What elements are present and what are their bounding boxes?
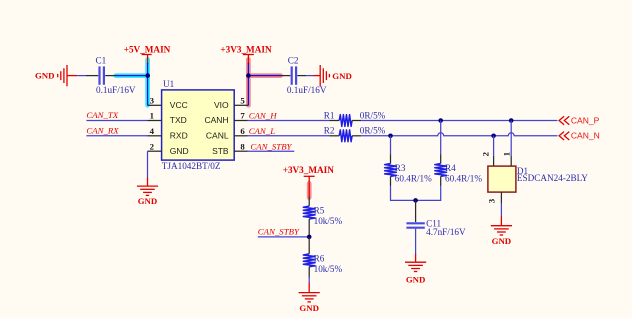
wire R2 to CAN_N port (with hops over R4 and D1 pin 1 columns) [361,133,557,136]
svg-text:+3V3_MAIN: +3V3_MAIN [220,44,272,54]
junction CAN_STBY node [307,235,312,240]
power port GND (below D1) [491,216,512,246]
off-sheet connector CAN_P [559,115,599,125]
D1 pin 2 [481,151,494,166]
svg-text:STB: STB [212,146,229,156]
ESD diode D1 body [488,166,516,192]
svg-text:+5V_MAIN: +5V_MAIN [124,44,171,54]
net highlight +5V_MAIN [116,60,148,106]
U1 pin 1 TXD [148,111,187,126]
svg-text:4.7nF/16V: 4.7nF/16V [426,227,466,237]
svg-text:VCC: VCC [170,100,188,110]
resistor R5 [303,197,315,237]
svg-text:0R/5%: 0R/5% [360,110,386,120]
svg-text:TJA1042BT/0Z: TJA1042BT/0Z [162,161,221,171]
wire CAN_P junction down to R4 [440,121,442,155]
svg-text:VIO: VIO [214,100,229,110]
svg-text:GND: GND [406,274,426,284]
U1 pin 8 STB [212,141,247,156]
resistor R3 [385,154,397,186]
wire U1 CANL to R2 [247,135,329,137]
junction C11 node [413,198,418,203]
power port +3V3_MAIN (above R5) [283,165,335,185]
wire GND to C1 [77,75,86,77]
junction R3 / CAN_N [388,134,393,139]
power port GND (below R6) [299,283,320,313]
svg-text:+3V3_MAIN: +3V3_MAIN [283,165,335,175]
svg-text:C2: C2 [288,55,299,65]
U1 pin 3 VCC [148,95,188,110]
wire R3 bottom to common node rail [391,186,441,200]
svg-text:ESDCAN24-2BLY: ESDCAN24-2BLY [517,173,588,183]
svg-text:CANH: CANH [205,115,229,125]
svg-text:CAN_N: CAN_N [571,131,600,141]
svg-text:CANL: CANL [206,130,229,140]
junction +5V_MAIN node [145,73,150,78]
D1 pin 1 [501,152,511,166]
junction D1 pin 2 / CAN_N [491,134,496,139]
svg-text:R6: R6 [314,253,325,263]
svg-text:R5: R5 [314,206,325,216]
svg-text:GND: GND [170,146,189,156]
svg-text:10k/5%: 10k/5% [314,264,343,274]
svg-text:0.1uF/16V: 0.1uF/16V [96,85,136,95]
wire CAN_N junction down to R3 [390,136,392,155]
wire C11 to GND [415,229,417,255]
svg-text:10k/5%: 10k/5% [314,216,343,226]
wire +3V3 junction to C2 [248,75,281,77]
svg-text:3: 3 [150,95,155,105]
svg-text:GND: GND [35,71,55,81]
junction +3V3_MAIN node [246,73,251,78]
wire C2 to GND [306,75,313,77]
net highlight +3V3_MAIN (above R5) [307,184,312,198]
wire CAN_P to D1 pin 1 [510,121,512,157]
svg-text:8: 8 [240,141,245,151]
svg-text:5: 5 [240,95,245,105]
U1 pin 2 GND [148,141,189,156]
wire +3V3 junction down to U1 pin 5 [247,63,249,105]
U1 pin 4 RXD [148,126,188,141]
svg-text:60.4R/1%: 60.4R/1% [445,173,482,183]
wire net CAN_STBY to divider junction [258,236,309,238]
svg-text:6: 6 [240,126,245,136]
svg-text:1: 1 [501,152,511,156]
IC U1 body [162,90,235,160]
wire net CAN_RX to U1 RXD [86,135,147,137]
capacitor C2 [281,66,306,84]
svg-text:GND: GND [492,236,512,246]
svg-text:2: 2 [150,141,155,151]
svg-text:GND: GND [138,196,158,206]
resistor R6 [303,237,315,278]
resistor R4 [435,154,447,186]
svg-text:2: 2 [481,151,491,156]
wire U1 GND pin to ground [147,151,149,177]
svg-text:RXD: RXD [170,130,188,140]
svg-text:CAN_TX: CAN_TX [86,110,118,120]
resistor R2 [329,130,361,142]
wire CAN_N to D1 pin 2 [493,136,495,157]
svg-text:TXD: TXD [170,115,187,125]
junction R4 / CAN_P [438,118,443,123]
power port +5V_MAIN [124,44,171,64]
wire +5V junction down to U1 pin 3 [147,63,149,105]
svg-text:CAN_P: CAN_P [571,115,600,125]
svg-text:7: 7 [240,111,245,121]
wire R6 to GND [308,278,310,284]
capacitor C11 [406,200,424,227]
D1 pin 3 [487,192,502,204]
svg-text:R3: R3 [395,163,406,173]
U1 pin 7 CANH [205,111,248,126]
svg-text:R2: R2 [324,126,335,136]
svg-text:3: 3 [487,198,497,203]
wire U1 CANH to R1 [247,120,329,122]
U1 pin 6 CANL [206,126,248,141]
wire C1 to +5V junction (net +5V_MAIN) [116,75,148,77]
junction D1 pin 1 / CAN_P [509,118,514,123]
U1 pin 5 VIO [214,95,248,110]
svg-text:U1: U1 [163,79,175,89]
resistor R1 [329,115,361,127]
wire U1 STB stub [247,150,294,152]
svg-text:R4: R4 [445,163,456,173]
wire R1 to CAN_P port [361,120,557,122]
off-sheet connector CAN_N [559,131,600,141]
power port +3V3_MAIN (top) [220,44,272,64]
svg-text:CAN_STBY: CAN_STBY [258,226,300,236]
power port GND (left of C1) [35,65,77,86]
svg-text:CAN_STBY: CAN_STBY [250,141,292,151]
svg-text:GND: GND [299,303,319,313]
svg-text:CAN_RX: CAN_RX [86,125,119,135]
svg-text:1: 1 [150,111,154,121]
capacitor C1 [86,66,116,84]
svg-text:C1: C1 [96,55,107,65]
power port GND (below C11) [405,254,426,284]
power port GND (below U1) [137,177,158,206]
power port GND (right of C2) [313,65,351,86]
wire net CAN_TX to U1 TXD [86,120,147,122]
svg-text:R1: R1 [324,110,335,120]
svg-text:0R/5%: 0R/5% [360,126,386,136]
svg-text:CAN_L: CAN_L [249,126,276,136]
svg-text:4: 4 [150,126,155,136]
net highlight +3V3_MAIN (top) [248,60,280,106]
svg-text:60.4R/1%: 60.4R/1% [395,173,432,183]
wire D1 pin 3 to GND [500,204,502,216]
svg-text:GND: GND [332,71,352,81]
svg-text:CAN_H: CAN_H [249,111,278,121]
wire +3V3 to R5 (highlighted, red core) [308,185,310,197]
